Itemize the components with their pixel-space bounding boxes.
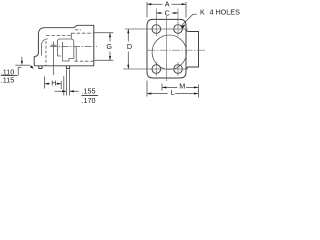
hole centerline horizontal upper xyxy=(125,28,188,30)
dim A extension left xyxy=(146,2,148,18)
extension line x63.8 xyxy=(63,76,65,96)
fraction bar 155 170 xyxy=(82,94,99,97)
dim M line xyxy=(162,86,198,88)
side view inner bend arc xyxy=(41,39,47,56)
flange outline xyxy=(147,19,186,78)
arrowhead A right xyxy=(182,3,186,5)
arrowhead D bottom xyxy=(127,65,129,69)
dim L extension left xyxy=(146,81,148,97)
dim D line xyxy=(127,29,129,69)
arrowhead M right xyxy=(194,86,198,88)
side view counterbore step edge xyxy=(70,33,72,39)
hole centerline vertical top-left xyxy=(155,9,157,37)
svg-text:G: G xyxy=(106,42,112,51)
dim 155 extension right xyxy=(69,70,71,96)
svg-text:H: H xyxy=(51,78,56,87)
dim A extension right xyxy=(185,2,187,18)
side view bore cross tick xyxy=(51,44,57,46)
side view hidden bore dashes xyxy=(46,34,71,36)
arrowhead H left xyxy=(45,83,49,85)
dim G line xyxy=(109,33,111,60)
svg-text:.115: .115 xyxy=(1,75,14,84)
bolt hole top-left xyxy=(152,25,161,34)
dim 155 extension left xyxy=(66,70,68,96)
svg-text:4 HOLES: 4 HOLES xyxy=(210,8,241,17)
arrowhead L right xyxy=(194,93,198,95)
svg-text:C: C xyxy=(165,8,170,17)
dim M L extension right xyxy=(198,85,200,98)
side view boss ridge right xyxy=(66,66,69,69)
arrowhead 110 lower leader xyxy=(30,65,34,68)
dim H extension right xyxy=(60,81,62,89)
arrowhead L left xyxy=(147,93,151,95)
dim A line xyxy=(147,3,186,5)
bolt hole top-right xyxy=(174,25,183,34)
side view hidden step relief dash xyxy=(75,29,81,31)
svg-text:D: D xyxy=(127,42,132,51)
dim L line xyxy=(147,93,198,95)
arrowhead M left xyxy=(162,86,166,88)
hole centerline horizontal lower xyxy=(123,68,188,70)
flange vertical centerline xyxy=(166,16,168,81)
dim H arrow stems xyxy=(45,83,61,85)
svg-text:.170: .170 xyxy=(82,96,96,105)
dim 155 arrow stems xyxy=(55,90,79,92)
side view bore centerline xyxy=(53,42,55,76)
side view hidden port bottom dashes xyxy=(75,60,95,62)
svg-text:K: K xyxy=(200,8,205,17)
leader line K 4 HOLES xyxy=(181,14,196,26)
arrowhead G bottom xyxy=(109,56,111,60)
hole centerline vertical bottom-left xyxy=(155,62,157,76)
dim 110 down arrow stem xyxy=(21,57,23,64)
arrowhead C left xyxy=(156,12,160,14)
dim M extension left xyxy=(161,84,163,91)
svg-text:A: A xyxy=(165,0,170,8)
hole centerline vertical bottom-right xyxy=(177,62,179,76)
bolt hole bottom-left xyxy=(152,65,161,74)
arrowhead 155 right xyxy=(70,90,74,92)
dim C line xyxy=(156,12,178,14)
fraction bar 110 115 xyxy=(1,74,18,77)
flange horizontal centerline xyxy=(147,49,205,51)
arrowhead 155 left xyxy=(62,90,66,92)
dim 110 lower leader diagonal xyxy=(31,66,33,68)
side view hidden step dashes xyxy=(71,32,94,34)
flange port circle xyxy=(152,35,186,69)
arrowhead 110 down xyxy=(21,61,23,65)
dim G top extension xyxy=(94,32,113,34)
arrowhead D top xyxy=(127,29,129,33)
arrowhead leader K xyxy=(181,24,186,28)
tube stub front view xyxy=(186,29,198,69)
side view hidden counterbore edge dashed xyxy=(45,41,47,65)
side view boss ridge left xyxy=(39,66,42,69)
bolt hole bottom-right xyxy=(174,65,183,74)
arrowhead H right xyxy=(57,83,61,85)
dim 110 top extension xyxy=(15,64,30,66)
arrowhead G top xyxy=(109,33,111,37)
dim G bottom extension xyxy=(94,59,113,61)
side view counterbore outline xyxy=(57,39,73,61)
svg-text:M: M xyxy=(179,82,185,91)
hole centerline vertical top-right xyxy=(177,9,179,37)
arrowhead A left xyxy=(147,3,151,5)
side view port centerline xyxy=(50,46,97,48)
svg-text:.155: .155 xyxy=(82,86,96,95)
svg-text:L: L xyxy=(171,88,175,97)
dim 110 leader vertical xyxy=(17,67,19,75)
dim H extension left xyxy=(44,77,46,89)
arrowhead C right xyxy=(174,12,178,14)
dim 110 lower tick xyxy=(18,66,21,68)
side view port inner wall xyxy=(75,47,77,62)
side view outer outline xyxy=(34,25,94,66)
